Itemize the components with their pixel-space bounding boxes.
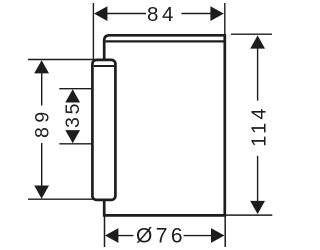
body plate	[104, 35, 225, 215]
dim 114 ext top	[231, 33, 272, 35]
dim 114 ext bottom	[226, 214, 273, 216]
dim 84 ext left	[92, 3, 94, 60]
arrow 114 down	[250, 201, 265, 214]
dim 84 line	[105, 13, 146, 15]
dim 35 ext bottom	[59, 143, 91, 145]
svg-text:Ø76: Ø76	[136, 224, 186, 247]
arrow 35 down	[65, 130, 80, 143]
dim 35 ext top	[59, 88, 91, 90]
svg-text:89: 89	[32, 107, 54, 138]
svg-text:114: 114	[249, 105, 271, 147]
svg-text:84: 84	[147, 3, 177, 26]
dim 84 ext right	[224, 3, 226, 35]
body inner top line	[106, 40, 224, 42]
dim 89 ext bottom	[28, 198, 94, 200]
arrow 84 left	[94, 6, 107, 21]
dim d76 line	[117, 235, 134, 237]
dim 89 line	[41, 73, 43, 106]
arrow d76 left	[105, 228, 118, 243]
dim 114 line	[257, 48, 259, 101]
arrow 35 up	[65, 89, 80, 102]
arrow 84 right	[210, 6, 223, 21]
arrow 89 down	[34, 186, 49, 199]
bar inner top line	[94, 65, 114, 67]
dim d76 ext left	[104, 216, 106, 247]
svg-text:35: 35	[62, 101, 84, 128]
holder bar	[92, 60, 115, 200]
arrow 114 up	[250, 35, 265, 48]
arrow 89 up	[34, 60, 49, 73]
dim 89 ext top	[28, 59, 94, 61]
dim d76 ext right	[224, 216, 226, 247]
arrow d76 right	[211, 228, 224, 243]
